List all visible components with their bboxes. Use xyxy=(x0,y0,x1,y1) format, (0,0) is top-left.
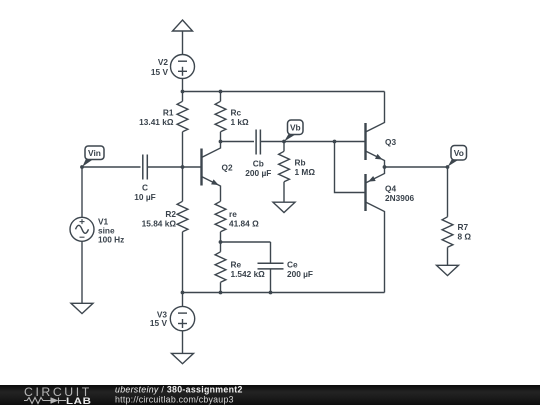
voltage source V3 xyxy=(170,306,194,330)
resistor Rb xyxy=(279,142,290,203)
capacitor C xyxy=(143,155,148,180)
wire C to base node xyxy=(147,166,182,168)
svg-text:41.84 Ω: 41.84 Ω xyxy=(229,218,259,228)
svg-text:10 µF: 10 µF xyxy=(134,192,155,202)
node re bottom xyxy=(219,240,223,244)
svg-text:2N3906: 2N3906 xyxy=(385,193,414,203)
node Ce bottom xyxy=(269,291,273,295)
resistor re xyxy=(215,192,226,242)
Q4 labels xyxy=(385,183,414,203)
node bottom left xyxy=(181,291,185,295)
wire re node to Ce xyxy=(221,241,271,243)
wire base node to Q2 xyxy=(183,166,202,168)
ground below R7 xyxy=(437,265,459,275)
wire VCC to V2 xyxy=(182,31,184,55)
svg-text:15 V: 15 V xyxy=(151,67,169,77)
svg-text:C: C xyxy=(142,183,148,193)
node top-left xyxy=(181,90,185,94)
svg-text:ubersteiny / 380-assignment2: ubersteiny / 380-assignment2 xyxy=(115,385,243,395)
Rb labels xyxy=(295,157,316,177)
svg-text:Vin: Vin xyxy=(88,148,101,158)
svg-text:Q2: Q2 xyxy=(222,162,233,172)
svg-text:1 MΩ: 1 MΩ xyxy=(295,167,316,177)
svg-text:Rc: Rc xyxy=(231,107,242,117)
transistor Q4 xyxy=(366,167,385,293)
wire Vo to R7 xyxy=(447,167,449,207)
V1 labels xyxy=(98,216,124,244)
svg-text:Re: Re xyxy=(231,259,242,269)
svg-text:Cb: Cb xyxy=(253,158,264,168)
svg-text:Q4: Q4 xyxy=(385,183,396,193)
wire Q4 base xyxy=(335,142,366,193)
svg-text:13.41 kΩ: 13.41 kΩ xyxy=(139,117,174,127)
wire Vb node to Q3 base xyxy=(284,141,366,143)
svg-text:re: re xyxy=(229,209,237,219)
wire output to Vo xyxy=(385,166,448,168)
svg-text:R2: R2 xyxy=(165,209,176,219)
transistor Q2 xyxy=(202,142,221,193)
svg-text:Vo: Vo xyxy=(454,148,464,158)
ground below V1 xyxy=(71,303,93,313)
Re labels xyxy=(231,259,266,279)
svg-text:200 µF: 200 µF xyxy=(287,269,313,279)
flag Vin xyxy=(82,146,104,167)
resistor R1 xyxy=(177,92,188,168)
svg-text:Rb: Rb xyxy=(295,157,306,167)
top rail wire xyxy=(183,91,385,93)
svg-text:15.84 kΩ: 15.84 kΩ xyxy=(142,218,177,228)
node Q4 base branch xyxy=(333,140,337,144)
svg-text:V2: V2 xyxy=(158,57,169,67)
Rc labels xyxy=(231,107,250,127)
C labels xyxy=(134,183,155,203)
node base junction xyxy=(181,165,185,169)
bottom rail wire xyxy=(183,292,385,294)
Ce labels xyxy=(287,259,313,279)
V2 labels xyxy=(151,57,169,77)
svg-text:R7: R7 xyxy=(458,222,469,232)
node output emitters xyxy=(383,165,387,169)
resistor R7 xyxy=(442,207,453,265)
transistor Q3 xyxy=(366,92,385,168)
wire V1 to ground xyxy=(81,241,83,303)
svg-text:15 V: 15 V xyxy=(150,318,168,328)
svg-text:R1: R1 xyxy=(163,107,174,117)
node Vo xyxy=(446,165,450,169)
resistor Rc xyxy=(215,92,226,142)
svg-text:Vb: Vb xyxy=(290,122,301,132)
svg-text:Q3: Q3 xyxy=(385,137,396,147)
node top Rc xyxy=(219,90,223,94)
voltage source V2 xyxy=(171,55,195,79)
Cb labels xyxy=(245,158,271,178)
capacitor Cb xyxy=(256,130,260,155)
wire Vin to C xyxy=(82,166,141,168)
CircuitLab footer banner xyxy=(0,385,540,405)
wire V1 down from Vin node xyxy=(81,167,83,217)
wire Cb to Vb node xyxy=(260,141,284,143)
svg-text:LAB: LAB xyxy=(66,396,92,405)
capacitor Ce xyxy=(258,242,284,293)
svg-text:200 µF: 200 µF xyxy=(245,168,271,178)
svg-text:8 Ω: 8 Ω xyxy=(458,231,472,241)
logo resistor squiggle and diode xyxy=(24,398,66,404)
wire V3 to ground xyxy=(182,331,184,354)
wire collector node to Cb xyxy=(221,141,255,143)
node Vin xyxy=(80,165,84,169)
wire V2 to top rail xyxy=(182,79,184,92)
R1 labels xyxy=(139,107,174,127)
svg-text:Ce: Ce xyxy=(287,259,298,269)
ground below Rb xyxy=(273,202,295,212)
R2 labels xyxy=(142,209,177,229)
resistor R2 xyxy=(177,167,188,293)
node Re bottom xyxy=(219,291,223,295)
voltage source V1 sine xyxy=(70,217,94,241)
svg-text:1 kΩ: 1 kΩ xyxy=(231,117,250,127)
svg-text:http://circuitlab.com/cbyaup3: http://circuitlab.com/cbyaup3 xyxy=(115,394,234,404)
node Vb xyxy=(282,140,286,144)
re labels xyxy=(229,209,259,229)
V3 labels xyxy=(150,309,168,328)
power supply VCC triangle xyxy=(173,20,193,31)
svg-text:1.542 kΩ: 1.542 kΩ xyxy=(231,269,266,279)
R7 labels xyxy=(458,222,472,242)
node Rc collector xyxy=(219,140,223,144)
wire V3 from bottom rail xyxy=(182,293,184,307)
svg-text:100 Hz: 100 Hz xyxy=(98,234,124,244)
ground below V3 xyxy=(172,353,194,363)
flag Vb xyxy=(284,120,303,141)
resistor Re xyxy=(215,242,226,293)
flag Vo xyxy=(448,146,467,167)
